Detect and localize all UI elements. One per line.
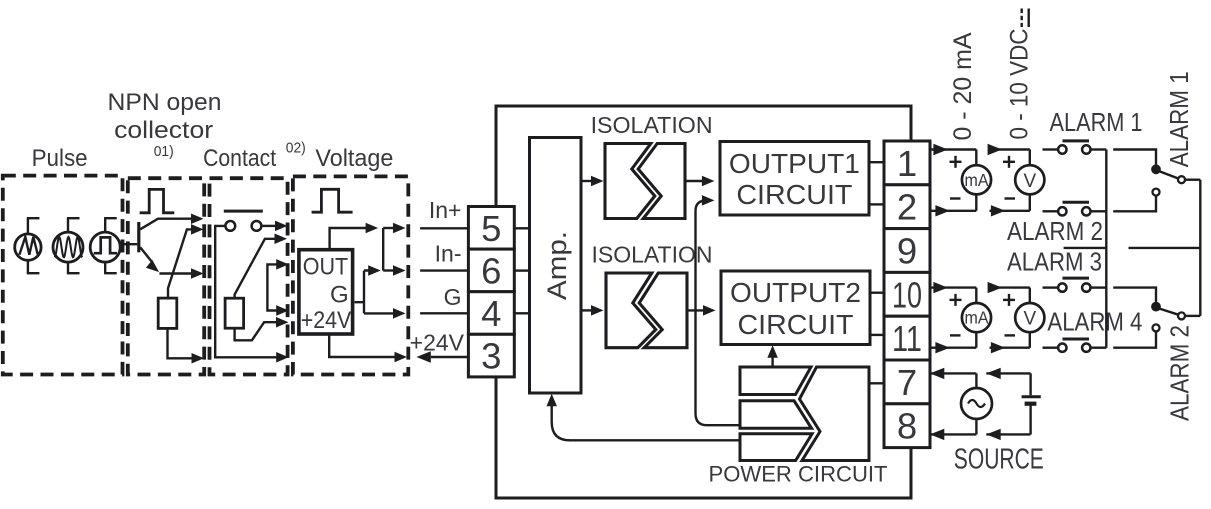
alarm contact right wire (ALARM 4) [1091,347,1107,349]
wire In+ line [420,227,468,229]
svg-text:1: 1 [897,143,917,184]
wire: contact resistor top diagonal to border arrow [235,234,287,299]
wire terminal 7 to AC source (left arrow) [930,368,977,379]
svg-text:ALARM 2: ALARM 2 [1165,325,1195,421]
battery symbol [1022,373,1041,434]
minus sign mA (output2) [950,334,961,336]
pulse source circle 3 connection brackets [104,218,117,273]
SPDT NO wire to rail (ALARM 2 relay) [1185,315,1200,317]
alarm contact circle right (ALARM 4) [1082,344,1090,352]
isolation block 2 (right part) [639,273,687,348]
svg-text:G: G [444,284,462,310]
svg-text:2: 2 [897,187,917,228]
voltmeter circle (output1) [1015,165,1044,194]
alarm contact bar (ALARM 2) [1063,201,1090,204]
alarm contact left wire (ALARM 2) [1043,210,1059,212]
wire to voltmeter top (output1) [988,144,1030,155]
input section box: Voltage (dashed) [293,176,408,374]
contact terminal circle right [252,221,262,231]
transistor Q1 base bar [137,222,140,252]
OUTPUT1 CIRCUIT block [720,142,869,216]
svg-text:ALARM 3: ALARM 3 [1007,246,1102,276]
terminal strip right (terminals 1,2,9,10,11,7,8) [884,141,930,448]
SPDT NC wire down and left (ALARM 2 relay) [1113,332,1156,348]
SPDT blade (ALARM 2 relay) [1158,308,1178,315]
svg-text:5: 5 [481,208,501,249]
power circuit block right part [800,367,870,461]
alarm contact circle right (ALARM 3) [1082,283,1090,291]
voltmeter circle (output2) [1015,303,1044,332]
OUTPUT2 CIRCUIT block [721,271,870,345]
input section box: Contact (dashed) [210,178,288,374]
mA meter hookup verticals (output2) [975,288,977,348]
wire +24V line from terminal 3 with left arrow [416,351,468,362]
svg-text:mA: mA [965,170,989,190]
power circuit block band 3 [740,434,812,461]
svg-text:02): 02) [286,140,306,157]
alarm contact right wire (ALARM 3) [1091,286,1107,288]
svg-text:Contact: Contact [203,145,276,172]
svg-text:mA: mA [965,308,989,328]
wire: G pin split to In- and G arrows [355,265,406,318]
wire: isolation 1 to OUTPUT1 with arrow [685,176,714,187]
plus sign mA (output2) [950,294,962,306]
AC tilde symbol [968,400,985,407]
svg-text:Amp.: Amp. [542,231,572,300]
sine waveform inside circle 2 [55,237,83,257]
transmitter outer box [496,106,911,498]
svg-text:+24V: +24V [301,307,352,334]
svg-text:OUT: OUT [303,254,349,281]
pulse source circle 2 [53,232,83,262]
alarm contact circle left (ALARM 2) [1058,207,1066,215]
svg-text:3: 3 [481,336,501,377]
resistor R1 (NPN section) [158,298,177,328]
wire: contact resistor bottom diagonal to border arrow [235,317,289,340]
svg-text:+24V: +24V [410,329,465,355]
alarm contact bar (ALARM 4) [1063,338,1090,341]
wire: power circuit to Amp (curved, with up arrow) [546,394,740,441]
mA meter circle (output2) [962,303,991,332]
minus sign mA (output1) [950,197,961,199]
wire In- line [420,269,468,271]
alarm contact circle right (ALARM 2) [1082,207,1090,215]
title: NPN open collector [108,89,222,144]
wire: resistor R1 bottom to border arrow [168,329,205,364]
wire: terminal 5 to Amp [514,227,529,229]
isolation block 1 (left part) [605,144,655,219]
plus sign V (output1) [1003,156,1015,168]
svg-text:V: V [1023,309,1036,330]
svg-text:9: 9 [897,231,917,272]
wire: OUT pin up and right to junction bus with arrow [330,223,379,250]
wire: terminal 4 to Amp [514,312,529,314]
alarm contact circle right (ALARM 1) [1082,145,1090,153]
pulse source circle 3 [90,232,120,262]
pulse waveform inside circle 3 [94,237,117,253]
wire: resistor top diagonal to border arrow [168,224,204,298]
wire: OUTPUT2 to terminal 11 [870,334,884,336]
svg-text:10: 10 [892,274,922,315]
svg-text:ALARM 4: ALARM 4 [1047,306,1142,336]
SPDT common pivot dot (ALARM 2 relay) [1152,302,1161,311]
voltage pulse waveform symbol [312,189,353,212]
SPDT common entry wire (ALARM 1 relay) [1113,150,1156,165]
SPDT NC circle (ALARM 2 relay) [1153,324,1160,331]
amplifier block Amp. [530,138,582,394]
alarm contact left wire (ALARM 3) [1043,286,1059,288]
svg-text:4: 4 [481,293,501,334]
wire: Amp to isolation 2 with arrow [581,305,604,316]
contact symbol bar [224,210,263,213]
minus sign V (output1) [1005,197,1016,199]
wire: +24V pin down and right with arrow to border [329,334,407,362]
svg-text:ALARM 1: ALARM 1 [1164,71,1194,167]
DC symbol (solid and dashed bars) [1022,9,1029,28]
svg-text:8: 8 [897,406,917,447]
svg-text:CIRCUIT: CIRCUIT [738,309,854,340]
AC source hookup verticals [975,373,977,434]
pulse source circle 2 connection brackets [67,218,80,273]
alarm contact circle left (ALARM 1) [1058,145,1066,153]
wire: power circuit to OUTPUT1 input (curved, with arrow) [696,195,741,425]
wire terminal to mA meter bottom (output1) [930,205,976,216]
wire: emitter to border arrow [159,268,203,279]
mA meter hookup verticals (output1) [975,150,977,211]
alarm contact left wire (ALARM 4) [1043,347,1059,349]
SPDT NC circle (ALARM 1 relay) [1153,189,1160,196]
terminal strip left (terminals 5,6,4,3) [468,207,514,377]
voltmeter hookup verticals (output1) [1029,150,1031,211]
svg-text:7: 7 [897,362,917,403]
SPDT NC wire down and left (ALARM 1 relay) [1113,196,1156,212]
alarm contact bar (ALARM 3) [1063,277,1090,280]
svg-text:01): 01) [154,143,174,160]
alarm contact circle left (ALARM 3) [1058,283,1066,291]
wire: isolation 2 to OUTPUT2 with arrow [687,305,716,316]
wire: terminal 6 to Amp [514,269,529,271]
input section box: NPN open collector (dashed) [128,178,204,374]
pulse source circle 1 connection brackets [27,218,40,273]
svg-text:NPN open: NPN open [108,89,222,116]
svg-text:In-: In- [435,241,462,267]
wire: power circuit to terminal 7 [869,382,884,384]
power circuit block band 2 [740,401,812,429]
wire to voltmeter bottom (output1) [990,205,1030,216]
svg-text:G: G [330,282,349,309]
SPDT common entry wire (ALARM 2 relay) [1113,288,1156,303]
transistor Q1 emitter with arrowhead [140,247,159,272]
svg-text:In+: In+ [429,197,462,223]
alarm contact left wire (ALARM 1) [1043,148,1059,150]
wire: OUTPUT2 to terminal 10 [870,292,884,294]
svg-text:Pulse: Pulse [32,145,88,172]
input section box: Pulse (dashed) [3,176,123,375]
wire: left contact circle down to +24V level and border arrow [215,226,289,363]
plus sign mA (output1) [950,156,962,168]
svg-text:ISOLATION: ISOLATION [591,112,713,138]
wire: OUTPUT1 to terminal 1 [869,161,884,163]
isolation block 1 (right part) [638,144,685,219]
wire: pulse circle 3 to Q1 base [120,243,138,245]
sensor box OUT/G/+24V [299,250,353,334]
power circuit block band 1 [740,367,811,395]
svg-text:Voltage: Voltage [315,145,393,172]
alarm contact bar (ALARM 1) [1063,139,1090,142]
svg-text:0 - 10 VDC: 0 - 10 VDC [1006,29,1034,140]
wire G line [420,312,468,314]
alarm common rail (vertical) [1105,150,1107,348]
contact terminal circle left [225,221,235,231]
right rail connecting SPDT NO contacts [1199,180,1201,316]
wire: Amp to isolation 1 with arrow [581,176,604,187]
svg-text:OUTPUT2: OUTPUT2 [730,277,861,308]
jumper bracket with two border arrows [267,259,288,316]
SPDT common pivot dot (ALARM 1 relay) [1152,165,1161,174]
alarm contact circle left (ALARM 4) [1058,344,1066,352]
svg-text:V: V [1023,171,1036,192]
svg-text:SOURCE: SOURCE [954,444,1044,476]
svg-text:0 - 20 mA: 0 - 20 mA [949,32,977,140]
NPN pulse waveform symbol [140,189,175,212]
alarm contact right wire (ALARM 1) [1091,148,1107,150]
pulse source circle 1 [15,234,41,260]
wire terminal to mA meter top (output1) [930,144,976,155]
SPDT NO circle (ALARM 1 relay) [1178,176,1185,183]
plus sign V (output2) [1003,294,1015,306]
minus sign V (output2) [1005,334,1016,336]
resistor R2 (contact section) [225,298,244,328]
voltmeter hookup verticals (output2) [1029,288,1031,348]
mA meter circle (output1) [962,165,991,194]
battery branch bottom wire (left arrow) [986,429,1030,440]
svg-text:11: 11 [892,318,922,359]
triangle waveform inside circle 1 [19,237,37,255]
wire AC source to terminal 8 (left arrow) [930,429,977,440]
isolation block 2 (left part) [606,273,656,348]
svg-text:POWER CIRCUIT: POWER CIRCUIT [709,462,888,487]
wire terminal to mA meter top (output2) [930,282,976,293]
svg-text:ALARM 1: ALARM 1 [1050,107,1143,137]
SPDT NO wire to rail (ALARM 1 relay) [1185,178,1200,180]
AC source circle [961,388,992,419]
link wire to SPDT rail (right segment) [1129,247,1200,249]
battery branch top wire (left arrow) [986,368,1030,379]
svg-text:collector: collector [114,117,213,144]
transistor Q1 collector wire to In+ arrow [140,213,203,229]
wire: right contact circle to border arrow [262,221,288,232]
SPDT blade (ALARM 1 relay) [1158,171,1178,179]
wire to voltmeter top (output2) [988,282,1030,293]
svg-text:OUTPUT1: OUTPUT1 [729,148,860,179]
svg-text:CIRCUIT: CIRCUIT [736,179,852,210]
wire: power circuit up arrow into OUTPUT2 [767,345,778,367]
link wire to SPDT rail (left segment) [1064,247,1107,249]
svg-text:6: 6 [481,250,501,291]
wire: OUTPUT1 to terminal 2 [869,203,884,205]
wire to voltmeter bottom (output2) [990,342,1030,353]
junction bus vertical with arrows to In+ and In- [383,223,405,276]
alarm contact right wire (ALARM 2) [1091,210,1107,212]
SPDT NO circle (ALARM 2 relay) [1178,312,1185,319]
svg-text:ALARM 2: ALARM 2 [1007,216,1103,246]
wire terminal to mA meter bottom (output2) [930,342,976,353]
